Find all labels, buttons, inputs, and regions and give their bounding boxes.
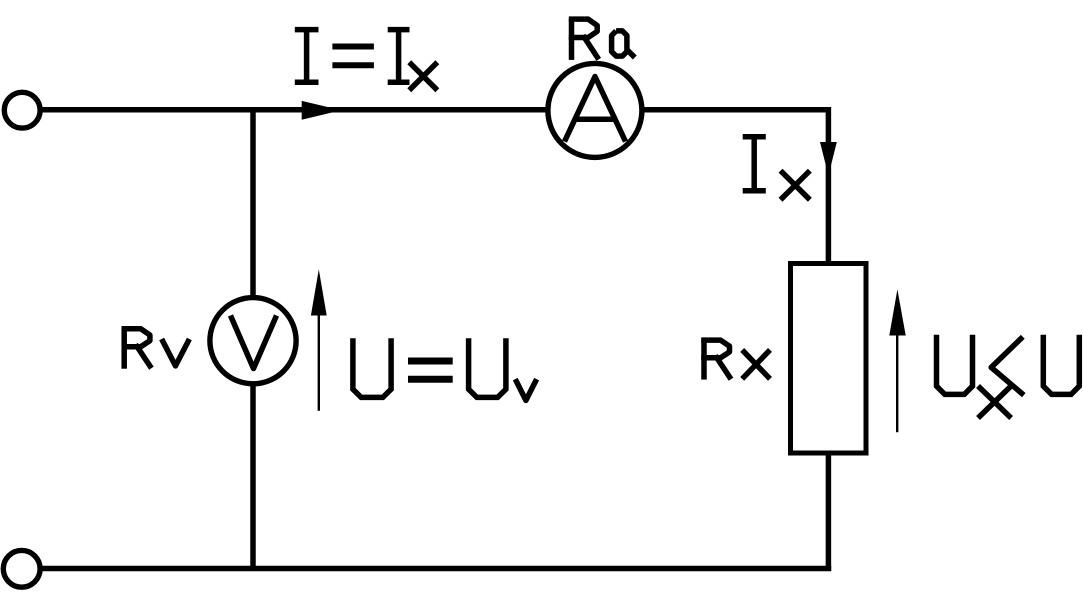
- label Ix : subscript x: [783, 173, 808, 198]
- label Rv : letter R: [121, 329, 127, 369]
- wire: top rail from input terminal to ammeter Ra: [40, 107, 548, 113]
- voltmeter Rv : circle body: [210, 298, 296, 384]
- label U=Uv : letter U (second): [469, 338, 506, 397]
- label Ra : letter R: [569, 19, 575, 60]
- label I=Ix : letter I: [295, 27, 319, 33]
- label Rv : letter v: [163, 341, 188, 366]
- wire: voltmeter branch from top rail junction down to voltmeter Rv: [250, 107, 256, 297]
- label Ux<U : less-than sign: [991, 337, 1024, 395]
- voltage arrow U=Uv beside voltmeter Rv: [318, 310, 320, 411]
- label Ix : letter I: [743, 134, 766, 140]
- label I=Ix : equals sign: [332, 44, 374, 50]
- label Ra : letter a: [612, 31, 627, 56]
- ammeter Ra : letter A: [565, 77, 626, 142]
- label Ux<U : letter U: [937, 335, 973, 395]
- wire: voltmeter Rv to bottom rail: [250, 384, 256, 571]
- label Ux<U : letter U (second): [1043, 335, 1079, 395]
- label U=Uv : equals sign: [408, 358, 453, 365]
- terminal node: top-left input terminal: [4, 92, 40, 128]
- current arrow I on top rail: [302, 101, 342, 120]
- label U=Uv : subscript v: [517, 382, 536, 401]
- label U=Uv : letter U: [353, 338, 391, 397]
- label Rx : letter x: [744, 352, 768, 377]
- label Rx : letter R: [701, 340, 707, 380]
- wire: ammeter Ra to top-right corner and down to resistor Rx: [642, 110, 828, 263]
- current arrow Ix on right vertical wire: [820, 142, 837, 176]
- voltmeter Rv : letter V: [231, 316, 277, 369]
- wire: bottom rail from input terminal to resistor Rx branch: [39, 566, 831, 572]
- label I=Ix : letter I (second): [388, 27, 410, 33]
- label Ux<U : subscript x: [980, 388, 1009, 416]
- label I=Ix : subscript x: [411, 64, 435, 88]
- terminal node: bottom-left input terminal: [3, 550, 40, 587]
- resistor Rx : rectangle body: [791, 264, 867, 454]
- wire: resistor Rx bottom lead down to bottom rail: [826, 453, 832, 571]
- voltage arrow Ux beside resistor Rx: [896, 330, 898, 432]
- ammeter Ra : circle body: [548, 63, 642, 157]
